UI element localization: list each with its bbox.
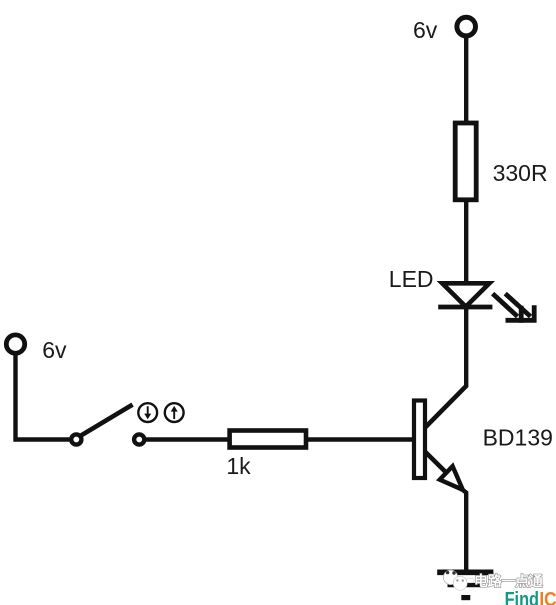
terminal T1 6v (top supply) xyxy=(457,17,476,36)
svg-text:IC: IC xyxy=(539,589,556,605)
svg-text:6v: 6v xyxy=(42,337,67,363)
terminal T2 6v (left supply) xyxy=(6,335,24,353)
wire left supply to switch xyxy=(16,353,70,439)
switch action icon: circled down arrow xyxy=(138,403,157,422)
svg-text:1k: 1k xyxy=(226,453,251,479)
resistor R1 330R xyxy=(455,123,476,200)
wire R1 to LED xyxy=(464,200,468,284)
wire R2 to base xyxy=(308,437,413,441)
switch SW1 right contact xyxy=(134,434,144,444)
LED D1 cathode bar xyxy=(438,305,492,310)
svg-text:6v: 6v xyxy=(413,17,438,43)
transistor Q1 emitter lead xyxy=(425,452,446,472)
switch action icon: circled up arrow xyxy=(165,403,184,422)
ground bar 2 xyxy=(448,583,482,587)
LED emission arrow 1 xyxy=(493,294,522,321)
transistor Q1 collector lead xyxy=(425,386,466,427)
svg-text:电路一点通: 电路一点通 xyxy=(474,573,543,589)
switch SW1 lever xyxy=(81,405,132,436)
wire supply to R1 xyxy=(464,36,468,123)
svg-text:Find: Find xyxy=(505,589,539,605)
wire switch to R2 xyxy=(146,437,229,441)
wire LED to collector bend xyxy=(464,307,468,387)
wire emitter to ground xyxy=(462,489,467,572)
LED D1 triangle (anode) xyxy=(442,283,489,306)
transistor Q1 base bar xyxy=(414,401,425,479)
svg-text:BD139: BD139 xyxy=(483,425,553,451)
resistor R2 1k xyxy=(230,431,306,448)
svg-text:330R: 330R xyxy=(493,160,548,186)
LED emission arrow 2 xyxy=(505,294,534,321)
transistor Q1 emitter arrowhead xyxy=(440,466,463,490)
switch SW1 left contact xyxy=(71,434,81,444)
ground bar 3 xyxy=(461,595,470,600)
ground bar 1 xyxy=(437,569,493,575)
watermark logo (panda) xyxy=(443,570,474,590)
svg-text:LED: LED xyxy=(389,266,434,292)
